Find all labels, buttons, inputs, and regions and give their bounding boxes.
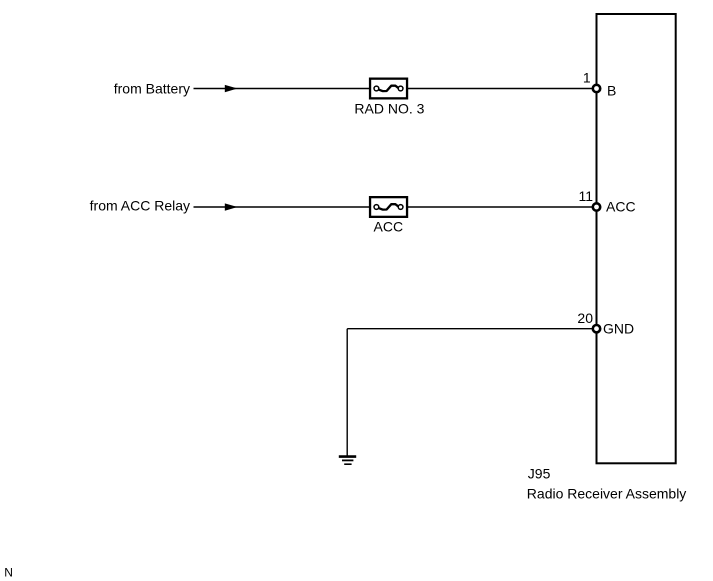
- pin name GND: [603, 321, 634, 337]
- svg-text:N: N: [4, 566, 13, 580]
- svg-text:Radio Receiver Assembly: Radio Receiver Assembly: [527, 486, 687, 502]
- svg-text:ACC: ACC: [374, 218, 404, 234]
- pin name ACC: [606, 199, 636, 215]
- svg-text:11: 11: [578, 188, 593, 204]
- svg-text:ACC: ACC: [606, 199, 636, 215]
- pin 1 terminal: [593, 85, 600, 92]
- svg-text:GND: GND: [603, 321, 634, 337]
- svg-text:RAD NO. 3: RAD NO. 3: [354, 101, 424, 117]
- wire GND vertical: [346, 329, 348, 457]
- label from Battery: [114, 80, 190, 96]
- arrow on Battery wire: [225, 85, 238, 92]
- svg-text:20: 20: [577, 310, 593, 326]
- label from ACC Relay: [90, 198, 190, 214]
- svg-text:1: 1: [583, 70, 591, 86]
- pin 11 terminal: [593, 203, 600, 210]
- wire from ACC Relay to pin 11: [194, 206, 597, 208]
- wire GND horizontal: [347, 328, 596, 330]
- svg-text:from ACC Relay: from ACC Relay: [90, 198, 190, 214]
- pin number 11: [578, 188, 593, 204]
- value label ACC: [374, 218, 404, 234]
- reference designator J95: [528, 466, 551, 482]
- pin 20 terminal: [593, 325, 600, 332]
- svg-text:from Battery: from Battery: [114, 80, 190, 96]
- pin name B: [607, 82, 616, 98]
- fuse ACC: [370, 197, 407, 217]
- component name Radio Receiver Assembly: [527, 486, 687, 502]
- value label RAD NO. 3: [354, 101, 424, 117]
- wire from Battery to pin 1: [194, 88, 597, 90]
- arrow on ACC Relay wire: [225, 203, 238, 210]
- pin number 20: [577, 310, 593, 326]
- svg-text:B: B: [607, 82, 616, 98]
- connector J95 Radio Receiver Assembly: [597, 14, 676, 463]
- node N: [4, 566, 13, 580]
- pin number 1: [583, 70, 591, 86]
- svg-text:J95: J95: [528, 466, 551, 482]
- ground: [339, 457, 356, 465]
- fuse RAD NO. 3: [370, 79, 407, 99]
